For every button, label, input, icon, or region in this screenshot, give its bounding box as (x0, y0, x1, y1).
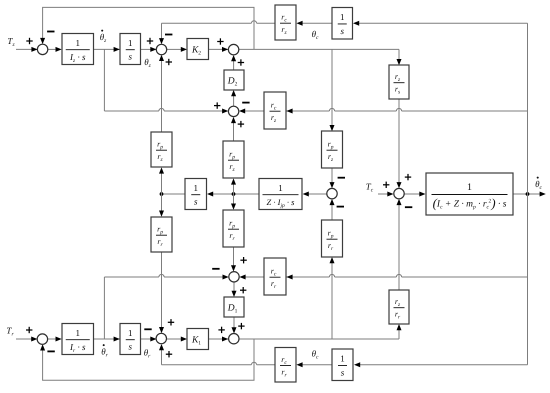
wire Tr input to junction J1b (16, 337, 37, 342)
sign minus at J2 top (165, 34, 172, 36)
wire 1/s to junction J2 (141, 47, 157, 52)
wire branch down to rp/rz column right (330, 49, 335, 131)
wire rp/rr left column down to J2b (159, 252, 164, 333)
block integrator 1/s (theta_c bottom) (332, 349, 353, 381)
wire J3b feedback down and left to J1b (40, 339, 254, 380)
wire theta_z-dot tap to junction J4 (104, 49, 228, 113)
svg-text:1: 1 (76, 328, 81, 338)
sign plus at J3 bottom (238, 59, 244, 65)
block rp/rr left (151, 217, 172, 252)
block D2 (224, 70, 244, 90)
wire down into rz/rs (397, 49, 402, 65)
svg-text:1: 1 (340, 354, 345, 364)
summing junction J4b (229, 272, 239, 282)
block rc/rz top (275, 5, 296, 40)
wire rp/rz right column down to junction JA (330, 168, 335, 188)
summing junction J2b (156, 333, 166, 343)
wire block 1/(Iz s) to block 1/s with node tap (94, 47, 121, 52)
block integrator 1/s (z) (120, 34, 141, 65)
wire J3 feedback up and left to J1 (40, 7, 254, 49)
summing junction J1 (37, 44, 47, 54)
wire right trunk (527, 23, 529, 365)
summing junction JB (394, 188, 404, 198)
label theta_z-dot (100, 32, 107, 44)
svg-text:1: 1 (340, 12, 345, 22)
block rc/rr mid (264, 258, 286, 295)
sign minus at J2b left (144, 328, 151, 330)
wire rz/rs down to junction JB (397, 99, 402, 188)
wire 1/s to junction J2b (141, 337, 157, 342)
wire plant output theta_c-dot with branch node (513, 192, 546, 197)
wire trunk to top 1/s (353, 21, 528, 26)
sign plus at J1 left (26, 38, 32, 44)
label Tz (7, 36, 15, 48)
label dot over theta_r-dot (103, 344, 105, 346)
label theta_c bottom (312, 349, 319, 361)
wire D1 down to J3b (232, 317, 237, 334)
sign plus at J2b bottom (166, 351, 172, 357)
label theta_r-dot (101, 347, 108, 359)
wire trunk to bottom 1/s (354, 362, 528, 367)
svg-text:1: 1 (128, 38, 133, 48)
sign plus at J1b left (26, 327, 32, 333)
block 1/(Z*Ijp*s) (259, 179, 302, 210)
sign plus at J3b top (238, 323, 244, 329)
wire JB to plant block (404, 192, 425, 197)
block K1 (187, 329, 209, 350)
sign minus at J1 top (47, 31, 54, 33)
sign plus at J2b top (168, 319, 174, 325)
block rp/rz right (322, 131, 343, 168)
sign plus at J2 bottom (166, 59, 172, 65)
label Tc (366, 182, 374, 194)
sign minus at JB bottom (405, 206, 412, 208)
block rp/rz mid (223, 141, 244, 178)
svg-text:1: 1 (128, 328, 133, 338)
label dot over theta_c-dot (537, 177, 539, 179)
sign minus at J4 right (242, 102, 249, 104)
label theta_c-dot output (535, 179, 542, 191)
svg-text:s: s (341, 367, 345, 377)
wire bottom 1/s to rc/rr (296, 362, 332, 367)
block D1 (224, 297, 244, 317)
wire rz/rr up to JB (397, 199, 402, 290)
block rz/rr (389, 290, 409, 324)
block rc/rr bottom (275, 348, 296, 383)
block rp/rr right (322, 220, 343, 257)
wire left branch down into rp/rr left (159, 194, 164, 217)
sign plus at J2 left (147, 38, 153, 44)
wire rp/rr right column up to JA (330, 199, 335, 220)
wire Tc input to JB (378, 192, 394, 197)
svg-text:s: s (340, 26, 344, 36)
block integrator 1/s (r) (120, 324, 141, 355)
sign plus at J3 left (217, 38, 223, 44)
wire centre 1/s output to left branch node (160, 192, 185, 196)
label dot over theta_z-dot (101, 30, 103, 32)
wire K1 to junction J3b (209, 337, 229, 342)
wire rp/rr mid column down to J4b (231, 247, 236, 272)
wire block 1/(Ir s) to bottom-left 1/s (94, 337, 121, 342)
wire K2 to junction J3 (209, 47, 229, 52)
sign minus at JA bottom (337, 206, 344, 208)
wire rc/rz mid to J4 (239, 109, 264, 114)
wire left branch up into rp/rz left (159, 167, 164, 194)
sign plus at J4 left (214, 102, 220, 108)
wire theta_c feedback to J2 top (159, 21, 275, 45)
svg-text:s: s (128, 52, 132, 62)
svg-text:1: 1 (278, 183, 283, 193)
wire J4 up to D2 (231, 90, 236, 106)
wire J4b down to D1 (232, 282, 237, 297)
wire J2 to block K2 (167, 47, 187, 52)
wire JA to block 1/(Z Ijp s) (303, 192, 327, 197)
wire up into rz/rr (397, 324, 402, 339)
summing junction JA (327, 188, 337, 198)
label theta_z (144, 57, 151, 69)
svg-text:1: 1 (76, 38, 81, 48)
sign plus at J4 bottom (238, 121, 244, 127)
block integrator 1/s (theta_c top) (332, 8, 353, 40)
wire centre branch up into rp/rz mid (231, 178, 236, 194)
wire trunk branch to rc/rz mid input (286, 108, 528, 113)
block rp/rr mid (223, 210, 244, 247)
block rz/rs (389, 65, 409, 99)
wire theta_c feedback to J2b bottom (159, 344, 275, 365)
wire rc/rr mid to J4b (239, 275, 264, 280)
svg-text:s: s (194, 197, 198, 207)
sign plus at J4b right (240, 287, 246, 293)
label Tr (6, 326, 14, 338)
summing junction J1b (37, 334, 47, 344)
summing junction J2 (156, 44, 166, 54)
wire centre branch down into rp/rr mid (231, 194, 236, 210)
block rc/rz mid (264, 92, 286, 129)
summing junction J3b (229, 334, 239, 344)
block 1/(Ir*s) (62, 324, 94, 355)
wire rp/rz mid column up to J4 (231, 117, 236, 141)
block rp/rz left (151, 132, 172, 167)
sign plus at J3b left (218, 327, 224, 333)
label theta_r (144, 348, 151, 360)
wire 1/(Z Ijp s) to centre 1/s with branch node (207, 192, 259, 197)
svg-text:1: 1 (194, 183, 199, 193)
wire theta_r-dot tap to junction J4b (104, 274, 228, 339)
wire J1 to block 1/(Iz s) (48, 47, 62, 52)
label theta_c top (312, 29, 319, 41)
svg-text:s: s (128, 342, 132, 352)
block integrator 1/s (pendulum) (185, 179, 207, 210)
wire branch up to rp/rr column right (330, 257, 335, 339)
block plant 1/((Ic+Z*mp*rc^2)*s) (426, 173, 513, 215)
sign plus at J4b top (240, 257, 246, 263)
wire J3b output to node below rz/rr (239, 338, 399, 340)
wire J1b to block 1/(Ir s) (48, 337, 62, 342)
summing junction J3 (228, 44, 238, 54)
block K2 (187, 39, 209, 60)
wire top 1/s to rc/rz (296, 21, 332, 26)
block 1/(Iz*s) (62, 34, 94, 65)
summing junction J4 (228, 106, 238, 116)
sign plus at JB left (383, 182, 389, 188)
svg-text:1: 1 (467, 182, 472, 193)
wire D2 up to J3 (231, 55, 236, 70)
sign minus at JA top (338, 177, 345, 179)
sign minus at J4b left (212, 268, 219, 270)
sign minus at J1b bottom (47, 351, 54, 353)
wire Tz input to junction J1 (16, 47, 38, 52)
wire rp/rz left column up to J2 (159, 55, 164, 132)
wire trunk branch to rc/rr mid input (286, 274, 528, 279)
sign plus at JB top (405, 174, 411, 180)
wire J2b to block K1 (167, 337, 187, 342)
wire J3 output to node above rz/rs (239, 48, 399, 50)
